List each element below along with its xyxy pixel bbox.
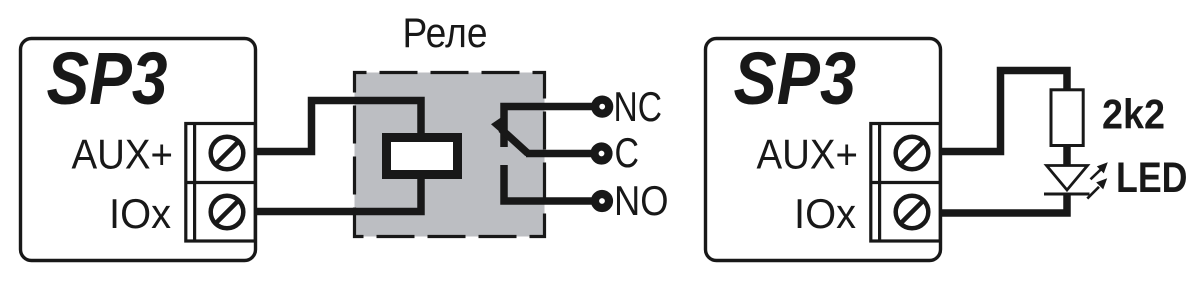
terminal block (left) bbox=[186, 124, 255, 242]
LED light arrow 2 bbox=[1087, 178, 1107, 198]
relay NC contact (L-shaped wire with stub) bbox=[504, 107, 602, 148]
svg-text:SP3: SP3 bbox=[47, 37, 168, 120]
device box SP3 (right) bbox=[706, 39, 941, 261]
svg-text:NC: NC bbox=[614, 83, 663, 130]
wire IOx to relay coil bottom bbox=[256, 172, 422, 212]
LED light arrow 1 bbox=[1091, 162, 1108, 179]
LED D1 (diode triangle) bbox=[1047, 166, 1088, 191]
svg-text:AUX+: AUX+ bbox=[72, 130, 174, 177]
terminal NO (donut) bbox=[595, 194, 609, 208]
wire AUX+ to resistor bbox=[941, 71, 1068, 152]
svg-text:C: C bbox=[615, 129, 640, 176]
relay common arm with arrow bbox=[501, 129, 528, 154]
svg-text:LED: LED bbox=[1116, 155, 1188, 202]
svg-text:2k2: 2k2 bbox=[1102, 91, 1165, 138]
wire common to C terminal bbox=[526, 150, 602, 158]
svg-text:IOx: IOx bbox=[794, 190, 856, 237]
wire resistor to LED bbox=[1063, 145, 1071, 167]
screw terminal IOx (left) bbox=[211, 196, 244, 229]
terminal NC (donut) bbox=[595, 100, 609, 114]
resistor R1 2k2 bbox=[1051, 90, 1083, 146]
device box SP3 (left) bbox=[21, 39, 256, 261]
relay NO contact (L-shaped wire with stub) bbox=[504, 165, 602, 201]
relay coil bbox=[387, 138, 458, 175]
screw terminal AUX+ (right) bbox=[896, 137, 929, 170]
svg-text:NO: NO bbox=[614, 177, 669, 224]
relay body (gray dashed box) bbox=[355, 73, 545, 237]
svg-text:IOx: IOx bbox=[109, 190, 171, 237]
screw terminal AUX+ (left) bbox=[211, 137, 244, 170]
svg-text:SP3: SP3 bbox=[734, 37, 857, 120]
LED cathode bar bbox=[1044, 193, 1090, 196]
terminal C (donut) bbox=[595, 147, 609, 161]
wire AUX+ to relay coil top bbox=[256, 101, 422, 152]
svg-text:Реле: Реле bbox=[403, 9, 488, 56]
svg-text:AUX+: AUX+ bbox=[757, 130, 859, 177]
terminal block (right) bbox=[871, 124, 940, 242]
screw terminal IOx (right) bbox=[896, 196, 929, 229]
wire LED to IOx bbox=[941, 193, 1068, 213]
